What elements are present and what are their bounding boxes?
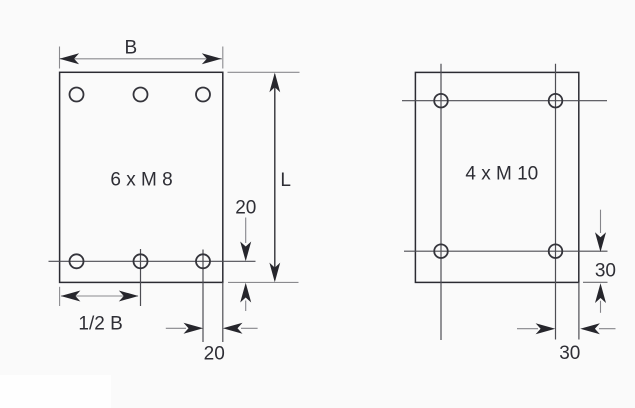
centerline horizontal top plate2 [402,100,607,102]
dimension half-B line [61,295,138,297]
hole plate2 bottom-left [434,244,448,258]
hole plate2 bottom-right [549,244,563,258]
dimension L arrowhead down [269,263,280,283]
top edge extension line plate1 [228,71,300,73]
dimension 20 bottom arrowhead left [223,323,243,334]
centerline vertical left plate2 [440,64,442,340]
dimension B arrowhead left [59,53,79,64]
plate2 right edge extension down [578,282,580,339]
plate 1 outline [60,72,223,282]
svg-text:20: 20 [235,198,256,219]
dimension 20 upper arrow line [245,218,247,244]
dimension 30 right arrowhead up [595,283,606,303]
dimension 30 right arrow tail lower [600,301,602,313]
centerline horizontal bottom plate2 [404,250,608,252]
svg-text:L: L [280,170,291,191]
hole plate1 bottom-left [70,254,84,268]
svg-text:1/2 B: 1/2 B [78,313,122,334]
bottom edge extension line plate1 [228,281,299,283]
dimension 20 bottom arrowhead right [184,323,204,334]
white patch bottom-left [0,375,111,408]
hole plate1 top-left [70,88,84,102]
svg-text:30: 30 [595,260,616,281]
svg-text:4 x M 10: 4 x M 10 [465,164,538,185]
dimension B line [60,58,222,60]
hole plate1 top-middle [134,88,148,102]
half-B extension line left [59,287,61,306]
hole plate2 top-left [434,94,448,108]
dimension B extension line right [222,47,224,69]
dimension half-B arrowhead right [119,291,139,302]
dimension 20 lower arrow tail [245,301,247,312]
dimension 30 bottom arrow right tail [517,328,538,330]
svg-text:30: 30 [559,343,580,364]
dimension 30 bottom arrow left tail [599,328,616,330]
dimension half-B arrowhead left [61,291,81,302]
hole plate1 bottom-right [196,254,210,268]
hole plate1 bottom-middle [134,254,148,268]
dimension L arrowhead up [269,73,280,93]
svg-text:B: B [124,38,137,59]
dimension 30 right arrowhead down [595,232,606,252]
hole plate1 top-right [196,88,210,102]
dimension L line [274,75,276,281]
dimension 20 lower arrowhead up [240,283,251,303]
centerline vertical right plate2 [555,64,557,340]
plate 2 outline [415,72,578,282]
dimension 30 bottom arrowhead right [536,323,556,334]
hole plate2 top-right [549,94,563,108]
centerline vertical middle hole plate1 [140,249,142,306]
svg-text:20: 20 [204,344,225,365]
dimension 30 bottom arrowhead left [580,323,600,334]
dimension 20 bottom arrow right tail [166,327,186,329]
dimension 20 bottom arrow left tail [241,327,258,329]
svg-text:6 x M 8: 6 x M 8 [110,170,172,191]
plate2 bottom edge extension right [583,281,608,283]
dimension B extension line left [59,47,61,69]
centerline bottom holes plate1 [49,260,256,262]
dimension B arrowhead right [202,53,222,64]
dimension 30 right arrow line upper [600,210,602,233]
dimension 20 upper arrowhead down [240,242,251,262]
centerline vertical right hole plate1 [202,250,204,343]
plate1 right edge extension down [222,282,224,342]
